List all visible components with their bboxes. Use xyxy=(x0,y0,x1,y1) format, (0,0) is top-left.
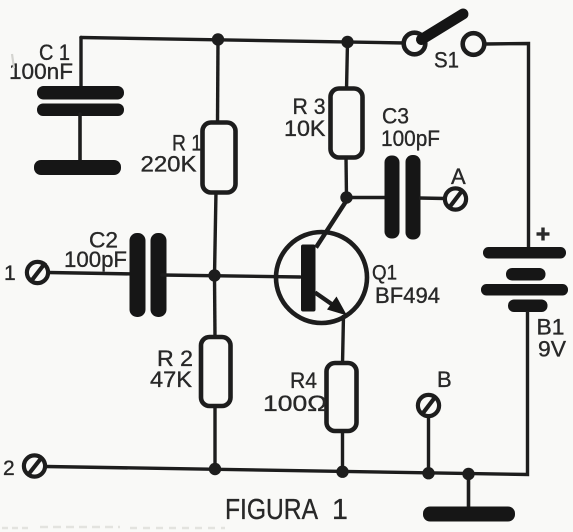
svg-text:S1: S1 xyxy=(434,48,459,73)
svg-text:220K: 220K xyxy=(141,152,197,177)
svg-text:100nF: 100nF xyxy=(9,59,73,84)
svg-text:Q1: Q1 xyxy=(372,262,397,285)
terminal A xyxy=(445,188,466,209)
ground (below C1) xyxy=(34,160,121,175)
svg-text:47K: 47K xyxy=(150,367,192,392)
wire ground stub xyxy=(467,474,471,508)
scan artifact left edge xyxy=(12,54,14,68)
junction dot bottom rail / R4 xyxy=(336,466,348,478)
wire battery bottom xyxy=(46,311,528,475)
switch S1 xyxy=(404,14,485,55)
junction dot top rail / R3 xyxy=(341,36,353,48)
scan artifact dashes bottom left xyxy=(2,527,225,528)
terminal B xyxy=(418,395,439,416)
label battery plus xyxy=(537,228,550,241)
wire R2 top xyxy=(213,276,217,338)
wire R4 bottom xyxy=(341,430,344,472)
svg-text:R4: R4 xyxy=(290,368,317,393)
wire emitter to R4 xyxy=(343,315,344,364)
svg-text:B: B xyxy=(437,367,452,392)
wire top rail xyxy=(81,38,405,44)
wire C1 to ground xyxy=(78,114,82,164)
wire R1 bottom to node xyxy=(215,191,217,276)
svg-text:100pF: 100pF xyxy=(381,126,440,151)
svg-text:9V: 9V xyxy=(538,337,566,362)
wire R3 bottom to collector node xyxy=(344,157,348,198)
svg-text:1: 1 xyxy=(4,262,16,285)
svg-text:FIGURA: FIGURA xyxy=(225,494,318,526)
svg-text:A: A xyxy=(451,164,466,189)
wire C3 to terminal A xyxy=(419,196,446,200)
wire collector node to C3 xyxy=(347,196,388,199)
wire terminal B to rail xyxy=(427,417,430,474)
ground (bottom right) xyxy=(423,507,515,522)
svg-text:100Ω: 100Ω xyxy=(263,391,327,416)
svg-text:C3: C3 xyxy=(382,104,409,129)
junction dot bottom rail / R2 xyxy=(209,463,221,475)
svg-text:100pF: 100pF xyxy=(64,247,127,272)
resistor R3 xyxy=(331,89,363,158)
terminal 1 xyxy=(27,262,48,283)
junction dot top rail / R1 xyxy=(212,33,224,45)
junction dot base node xyxy=(208,269,220,281)
junction dot bottom rail / terminal B xyxy=(422,467,434,479)
svg-text:BF494: BF494 xyxy=(375,283,440,308)
wire R1 top xyxy=(216,40,220,125)
wire R2 bottom xyxy=(213,405,216,469)
wire C1 top stub xyxy=(79,38,82,89)
wire terminal1 to C2 xyxy=(48,273,135,275)
wire S1 to battery top xyxy=(485,44,529,250)
wire R3 top xyxy=(347,42,348,90)
resistor R4 xyxy=(327,363,357,431)
resistor R2 xyxy=(201,337,231,406)
capacitor C1 xyxy=(37,86,124,116)
wire C2 to base node xyxy=(162,275,300,277)
junction dot bottom rail / ground xyxy=(462,468,474,480)
resistor R1 xyxy=(203,123,236,193)
terminal 2 xyxy=(24,455,45,476)
capacitor C3 xyxy=(385,155,421,240)
battery B1 xyxy=(481,247,568,312)
transistor Q1 xyxy=(276,199,367,323)
svg-text:1: 1 xyxy=(332,494,348,526)
junction dot collector node xyxy=(340,191,352,203)
svg-text:2: 2 xyxy=(3,457,15,480)
svg-text:10K: 10K xyxy=(284,116,326,141)
capacitor C2 xyxy=(130,233,167,317)
